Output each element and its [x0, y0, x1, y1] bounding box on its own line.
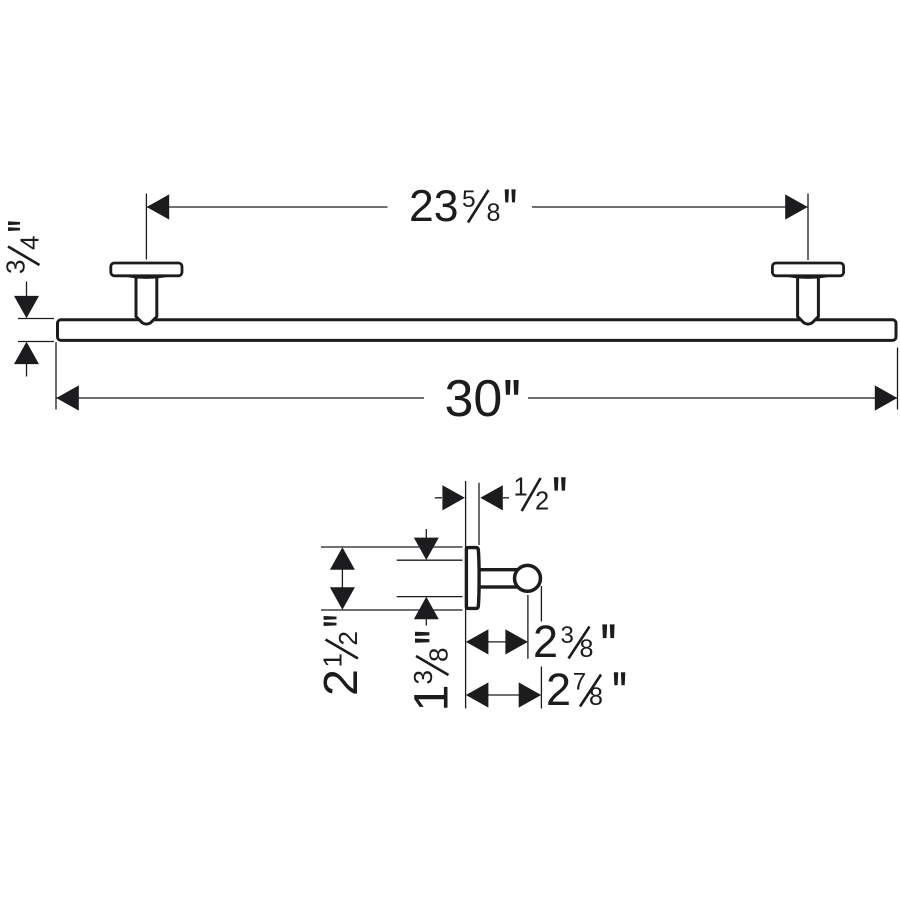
- svg-text:2: 2: [546, 664, 571, 715]
- svg-text:1: 1: [514, 474, 528, 502]
- svg-text:8: 8: [580, 635, 594, 663]
- svg-text:3: 3: [0, 260, 30, 274]
- svg-text:3: 3: [561, 622, 574, 649]
- svg-text:2: 2: [533, 616, 558, 667]
- svg-text:2: 2: [314, 669, 368, 696]
- svg-text:30: 30: [445, 370, 503, 428]
- svg-text:7: 7: [573, 669, 586, 696]
- svg-text:8: 8: [424, 648, 454, 662]
- svg-text:1: 1: [405, 685, 459, 712]
- svg-text:8: 8: [487, 199, 501, 227]
- svg-text:2: 2: [333, 631, 363, 645]
- svg-text:23: 23: [409, 182, 459, 231]
- svg-text:4: 4: [15, 236, 45, 250]
- svg-text:3: 3: [408, 670, 438, 684]
- svg-text:1: 1: [318, 653, 348, 667]
- svg-text:2: 2: [535, 488, 549, 516]
- svg-text:5: 5: [462, 186, 476, 213]
- svg-text:8: 8: [589, 683, 603, 711]
